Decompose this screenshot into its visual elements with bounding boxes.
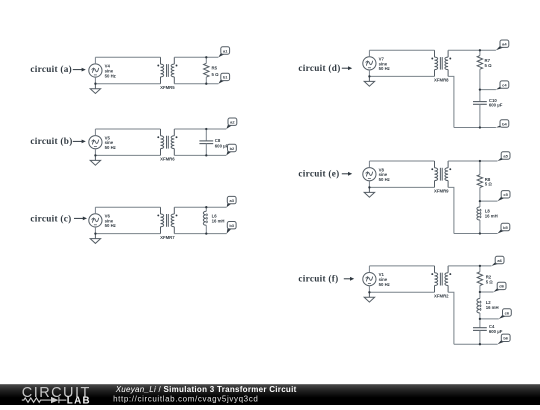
svg-text:5 Ω: 5 Ω xyxy=(212,72,220,77)
junction ground V6 xyxy=(94,232,96,234)
resistor R5 5 Ω xyxy=(205,57,207,63)
node a2 xyxy=(226,123,232,129)
wire V8 bottom stem xyxy=(368,181,370,188)
svg-text:c5: c5 xyxy=(503,192,508,197)
capacitor C4 600 µF xyxy=(479,319,481,328)
wire secondary bottom xyxy=(174,83,218,85)
voltage source V1 xyxy=(363,273,376,286)
junction b6 xyxy=(479,343,481,345)
wire primary top xyxy=(369,49,434,51)
CircuitLab logo wire resistor xyxy=(22,397,67,403)
svg-text:c6: c6 xyxy=(505,310,510,315)
wire V8 top stem xyxy=(368,161,370,168)
wire secondary jog xyxy=(448,187,454,233)
junction d6 xyxy=(479,291,481,293)
svg-text:50 Hz: 50 Hz xyxy=(379,66,390,71)
svg-text:circuit (f): circuit (f) xyxy=(298,274,338,284)
junction C8 bottom xyxy=(205,154,207,156)
wire primary bottom xyxy=(95,83,160,85)
svg-text:XFMR6: XFMR6 xyxy=(160,157,175,162)
junction c5 xyxy=(479,200,481,202)
wire primary top xyxy=(95,206,160,208)
svg-text:b6: b6 xyxy=(503,336,508,341)
svg-text:600 µF: 600 µF xyxy=(489,103,503,108)
junction c4 xyxy=(479,88,481,90)
junction ground V7 xyxy=(368,75,370,77)
voltage source V7 xyxy=(363,57,376,70)
svg-text:50 Hz: 50 Hz xyxy=(105,223,116,228)
wire secondary top xyxy=(448,160,497,162)
wire node c4 stub xyxy=(480,89,496,91)
junction a6 xyxy=(479,265,481,267)
wire primary bottom xyxy=(369,186,434,188)
junction R5 bottom xyxy=(205,83,207,85)
svg-text:XFMR2: XFMR2 xyxy=(434,294,449,299)
inductor L6 16 mH xyxy=(205,207,207,211)
wire secondary bottom xyxy=(174,233,226,235)
node b4 xyxy=(496,125,504,127)
junction b4 xyxy=(479,126,481,128)
ground xyxy=(90,234,100,244)
transformer XFMR9 xyxy=(435,161,449,187)
node d6 xyxy=(494,288,502,292)
wire primary top xyxy=(369,265,434,267)
voltage source V6 xyxy=(89,214,102,227)
svg-text:circuit (c): circuit (c) xyxy=(30,213,71,223)
svg-text:5 Ω: 5 Ω xyxy=(486,279,494,284)
svg-text:50 Hz: 50 Hz xyxy=(379,282,390,287)
transformer XFMR5 xyxy=(161,57,175,83)
wire V5 top stem xyxy=(94,129,96,136)
voltage source V5 xyxy=(89,136,102,149)
node b2 xyxy=(226,150,231,156)
inductor L2 16 mH xyxy=(479,292,481,299)
node b5 xyxy=(498,229,506,234)
svg-text:L6: L6 xyxy=(212,213,218,218)
wire V1 top stem xyxy=(368,266,370,273)
svg-text:b1: b1 xyxy=(223,75,228,80)
svg-text:XFMR5: XFMR5 xyxy=(160,85,175,90)
svg-text:50 Hz: 50 Hz xyxy=(379,177,390,182)
svg-text:XFMR9: XFMR9 xyxy=(434,189,449,194)
node a1 xyxy=(218,52,225,57)
wire secondary top xyxy=(448,265,491,267)
node a4 xyxy=(496,45,504,50)
wire V5 bottom stem xyxy=(94,149,96,156)
svg-text:600 µF: 600 µF xyxy=(489,329,503,334)
svg-text:16 mH: 16 mH xyxy=(212,219,225,224)
svg-text:Xueyan_Li / Simulation 3 Trans: Xueyan_Li / Simulation 3 Transformer Cir… xyxy=(115,385,297,394)
resistor R8 5 Ω xyxy=(479,161,481,175)
svg-text:http://circuitlab.com/cvagv5jv: http://circuitlab.com/cvagv5jvyq3cd xyxy=(113,394,258,403)
node a3 xyxy=(227,202,232,207)
junction c6 xyxy=(479,318,481,320)
node a5 xyxy=(498,157,506,161)
node c5 xyxy=(498,196,506,201)
junction L6 top xyxy=(205,206,207,208)
svg-text:d6: d6 xyxy=(499,284,504,289)
wire secondary top xyxy=(174,128,226,130)
junction ground V4 xyxy=(94,83,96,85)
svg-text:16 mH: 16 mH xyxy=(485,213,498,218)
svg-text:50 Hz: 50 Hz xyxy=(105,73,116,78)
wire V4 bottom stem xyxy=(94,77,96,84)
svg-text:R5: R5 xyxy=(212,65,218,70)
wire secondary bottom xyxy=(174,154,226,156)
node a6 xyxy=(492,262,500,266)
ground xyxy=(364,292,374,302)
wire bottom rail xyxy=(454,343,498,345)
node b1 xyxy=(218,79,225,84)
CircuitLab logo diode xyxy=(51,397,59,403)
wire primary top xyxy=(95,56,160,58)
wire V4 top stem xyxy=(94,57,96,64)
wire primary top xyxy=(369,160,434,162)
svg-text:c4: c4 xyxy=(502,82,507,87)
svg-text:circuit (a): circuit (a) xyxy=(30,64,72,74)
resistor R2 5 Ω xyxy=(479,266,481,272)
svg-text:16 mH: 16 mH xyxy=(486,305,499,310)
svg-text:a5: a5 xyxy=(503,153,508,158)
transformer XFMR8 xyxy=(435,50,449,76)
svg-text:b2: b2 xyxy=(230,146,235,151)
junction C8 top xyxy=(205,128,207,130)
wire secondary top xyxy=(448,49,496,51)
voltage source V8 xyxy=(363,168,376,181)
svg-text:5 Ω: 5 Ω xyxy=(485,63,493,68)
transformer XFMR7 xyxy=(161,207,175,233)
wire primary bottom xyxy=(95,154,160,156)
node c6 xyxy=(499,314,507,319)
transformer XFMR6 xyxy=(161,129,175,155)
svg-text:LAB: LAB xyxy=(67,395,91,405)
wire primary bottom xyxy=(369,291,434,293)
wire node c6 stub xyxy=(480,318,499,320)
svg-text:C8: C8 xyxy=(215,138,221,143)
wire V7 top stem xyxy=(368,50,370,56)
capacitor C8 600 µF xyxy=(205,129,207,141)
svg-text:a1: a1 xyxy=(223,48,228,53)
wire secondary jog xyxy=(448,76,454,127)
ground xyxy=(364,187,374,197)
junction ground V5 xyxy=(94,154,96,156)
svg-text:a6: a6 xyxy=(497,258,502,263)
wire primary bottom xyxy=(95,233,160,235)
wire secondary jog xyxy=(448,292,454,344)
wire primary top xyxy=(95,128,160,130)
svg-text:XFMR7: XFMR7 xyxy=(160,235,175,240)
wire V1 bottom stem xyxy=(368,286,370,293)
wire V6 bottom stem xyxy=(94,227,96,234)
node b6 xyxy=(498,340,506,345)
wire bottom rail xyxy=(454,233,498,235)
svg-text:a2: a2 xyxy=(230,120,235,125)
node b3 xyxy=(227,227,232,234)
svg-text:b3: b3 xyxy=(229,223,234,228)
resistor R7 5 Ω xyxy=(479,50,481,55)
svg-text:circuit (e): circuit (e) xyxy=(298,169,339,179)
svg-text:5 Ω: 5 Ω xyxy=(485,182,493,187)
ground xyxy=(364,76,374,86)
svg-text:600 µF: 600 µF xyxy=(215,143,229,148)
wire secondary top xyxy=(174,206,226,208)
wire node d6 stub xyxy=(480,291,494,293)
wire bottom rail xyxy=(454,127,496,129)
svg-text:50 Hz: 50 Hz xyxy=(105,145,116,150)
wire secondary top xyxy=(174,56,218,58)
junction b5 xyxy=(479,232,481,234)
svg-text:a4: a4 xyxy=(502,42,507,47)
junction ground V1 xyxy=(368,291,370,293)
svg-text:circuit (d): circuit (d) xyxy=(298,63,340,73)
junction a4 xyxy=(479,49,481,51)
voltage source V4 xyxy=(89,64,102,77)
junction R5 top xyxy=(205,56,207,58)
junction ground V8 xyxy=(368,186,370,188)
svg-text:circuit (b): circuit (b) xyxy=(30,136,72,146)
inductor L8 16 mH xyxy=(479,201,481,207)
junction a5 xyxy=(479,160,481,162)
svg-text:XFMR8: XFMR8 xyxy=(434,78,449,83)
node c4 xyxy=(496,86,504,89)
transformer XFMR2 xyxy=(435,266,449,292)
svg-text:b4: b4 xyxy=(502,121,507,126)
wire V6 top stem xyxy=(94,207,96,214)
wire primary bottom xyxy=(369,75,434,77)
capacitor C10 600 µF xyxy=(479,90,481,102)
svg-text:b5: b5 xyxy=(503,225,508,230)
wire node c5 stub xyxy=(480,200,498,202)
svg-text:a3: a3 xyxy=(229,198,234,203)
ground xyxy=(90,155,100,165)
junction L6 bottom xyxy=(205,232,207,234)
ground xyxy=(90,84,100,94)
wire V7 bottom stem xyxy=(368,70,370,76)
